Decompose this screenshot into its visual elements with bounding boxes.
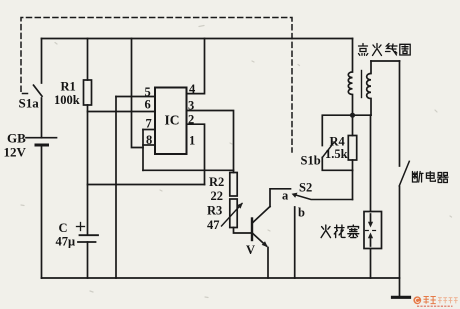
svg-text:2: 2 (188, 113, 194, 127)
svg-text:7: 7 (146, 117, 152, 131)
svg-text:S1b: S1b (301, 154, 321, 168)
svg-text:S2: S2 (299, 181, 312, 195)
svg-text:R1: R1 (61, 80, 76, 94)
svg-text:100k: 100k (54, 93, 80, 107)
svg-text:R3: R3 (207, 204, 222, 218)
svg-text:3: 3 (188, 99, 194, 113)
svg-text:R2: R2 (209, 175, 224, 189)
svg-text:22: 22 (211, 189, 224, 203)
svg-text:1: 1 (189, 134, 195, 148)
svg-text:S1a: S1a (19, 96, 40, 111)
svg-text:47μ: 47μ (56, 235, 76, 249)
svg-text:8: 8 (146, 133, 152, 147)
svg-text:a: a (282, 189, 289, 203)
svg-text:1.5k: 1.5k (325, 147, 348, 161)
svg-text:IC: IC (165, 113, 180, 128)
svg-text:C: C (59, 221, 68, 235)
svg-text:V: V (246, 243, 255, 257)
svg-text:12V: 12V (4, 145, 27, 160)
svg-text:b: b (298, 206, 305, 220)
svg-text:6: 6 (145, 98, 151, 112)
svg-text:47: 47 (207, 218, 220, 232)
svg-text:4: 4 (189, 82, 196, 96)
svg-text:GB: GB (7, 131, 26, 146)
